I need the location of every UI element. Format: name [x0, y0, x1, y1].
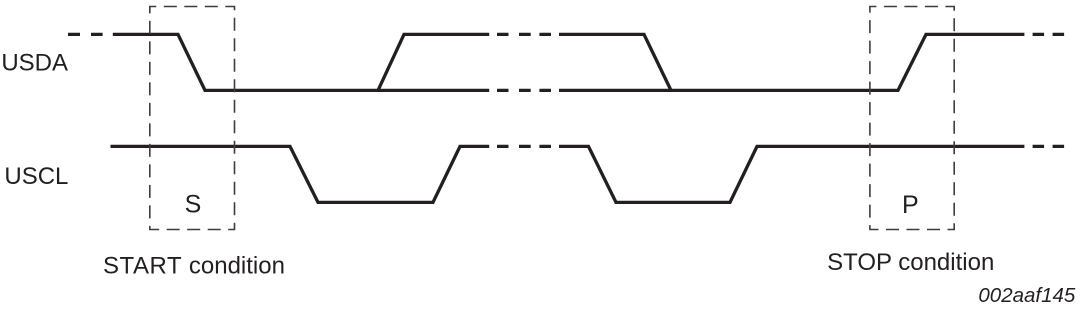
wire USDA middle dashes high: [497, 33, 551, 36]
svg-text:S: S: [185, 190, 202, 218]
wire USDA trailing dashes: [1033, 33, 1065, 36]
wire USDA high then fall to low (left): [113, 34, 489, 90]
wire USDA rise branch to high: [378, 34, 489, 90]
wire USDA low then rise to high (right): [559, 34, 1024, 90]
svg-text:STOP condition: STOP condition: [827, 249, 994, 276]
svg-text:START condition: START condition: [103, 253, 285, 280]
wire USDA middle dashes low: [497, 89, 551, 92]
svg-text:USDA: USDA: [1, 49, 68, 76]
wire USCL middle dashes: [497, 145, 551, 148]
wire USCL left: high, fall, low, rise: [111, 146, 490, 202]
svg-text:USCL: USCL: [4, 163, 68, 190]
svg-text:002aaf145: 002aaf145: [978, 284, 1076, 307]
wire USDA lead-in dashes: [68, 33, 103, 36]
wire USCL right: high, fall, low, rise, high: [559, 146, 1024, 202]
svg-text:P: P: [902, 191, 919, 219]
STOP condition dashed box: [870, 7, 954, 230]
wire USDA high then fall (right): [559, 34, 671, 90]
START condition dashed box: [150, 7, 235, 230]
wire USCL trailing dashes: [1033, 145, 1065, 148]
